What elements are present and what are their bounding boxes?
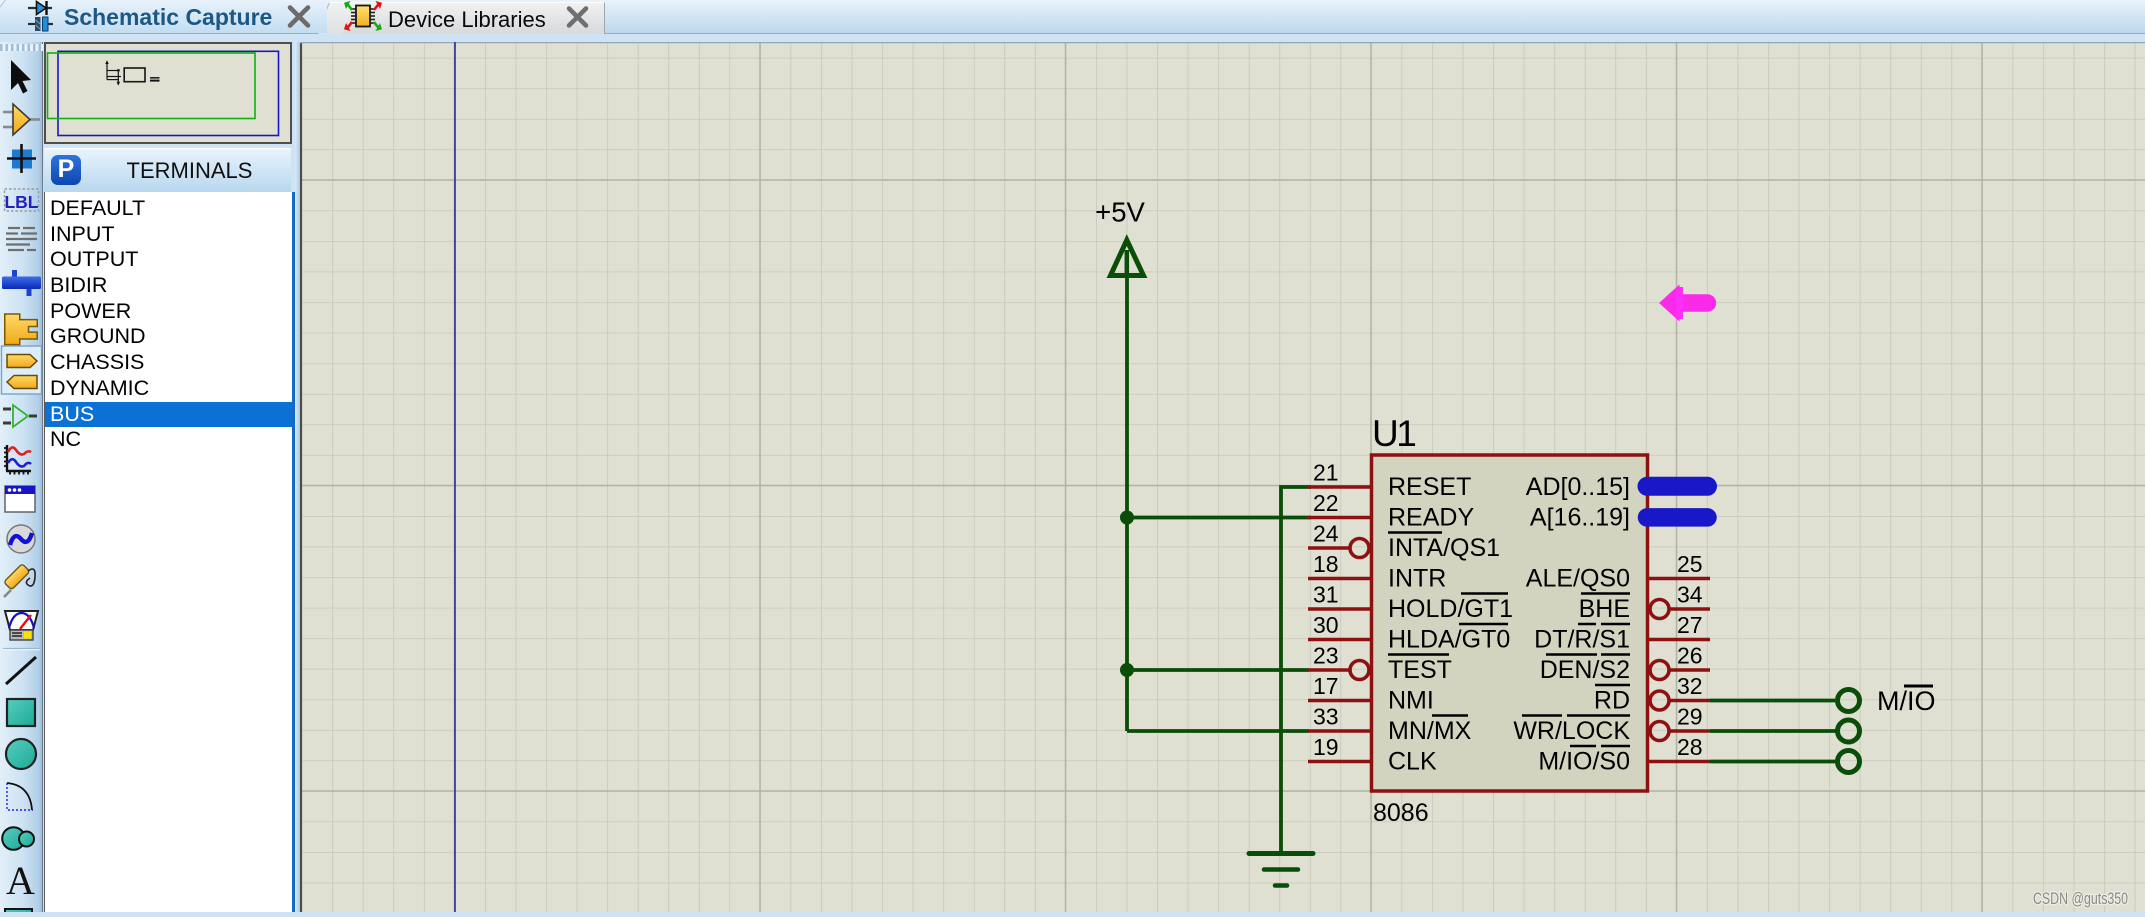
partial icon at bottom (5, 909, 32, 915)
terminals header (44, 148, 291, 193)
svg-text:BHE: BHE (1579, 595, 1630, 623)
right pin numbers (1677, 551, 1703, 760)
terminal ring 3 (1838, 751, 1860, 773)
2D arc tool (7, 783, 33, 810)
pin 29 inversion bubble (1650, 722, 1669, 741)
svg-text:32: 32 (1677, 673, 1703, 699)
pin 32 inversion bubble (1650, 691, 1669, 710)
pin 24 inversion bubble (1350, 539, 1369, 558)
svg-text:M/IO: M/IO (1877, 686, 1936, 716)
power terminal arrow (1111, 240, 1144, 277)
svg-text:18: 18 (1313, 551, 1339, 577)
wire M/IO to terminal (1710, 760, 1836, 764)
svg-text:RD: RD (1594, 687, 1630, 715)
svg-text:RESET: RESET (1388, 473, 1471, 501)
right pin stubs (1648, 579, 1710, 762)
svg-text:HLDA/GT0: HLDA/GT0 (1388, 626, 1510, 654)
svg-text:17: 17 (1313, 673, 1339, 699)
current probe tool (5, 611, 38, 640)
wire WR to terminal (1710, 729, 1836, 733)
svg-text:31: 31 (1313, 582, 1339, 608)
mouse cursor arrow (1659, 285, 1716, 322)
svg-text:ALE/QS0: ALE/QS0 (1526, 565, 1630, 593)
svg-text:A: A (6, 858, 35, 903)
left pin name overbars (1388, 533, 1508, 716)
wire RD to terminal (1710, 699, 1835, 703)
left pin stubs (1308, 487, 1371, 762)
svg-text:WR/LOCK: WR/LOCK (1513, 717, 1630, 745)
M/IO label overbar (1904, 685, 1933, 688)
svg-text:24: 24 (1313, 521, 1339, 547)
wire ground vertical (1281, 487, 1311, 851)
text script tool (6, 228, 37, 250)
svg-text:CSDN @guts350: CSDN @guts350 (2033, 889, 2128, 908)
svg-text:READY: READY (1388, 504, 1474, 532)
pin 26 inversion bubble (1650, 661, 1669, 680)
svg-text:21: 21 (1313, 460, 1339, 486)
wire to pin 33 MN/MX (1127, 729, 1309, 733)
junction at READY wire (1120, 511, 1134, 525)
svg-text:27: 27 (1677, 612, 1703, 638)
right pin name overbars (1522, 594, 1630, 747)
svg-text:23: 23 (1313, 643, 1339, 669)
terminals mode tool (selected) (2, 346, 42, 394)
svg-text:29: 29 (1677, 704, 1703, 730)
svg-text:30: 30 (1313, 612, 1339, 638)
wire to pin 23 TEST (1125, 668, 1309, 672)
preview panel (44, 42, 292, 144)
component mode tool (3, 104, 40, 135)
2D closed path tool (2, 827, 34, 850)
tape recorder mode tool (5, 486, 35, 512)
svg-text:28: 28 (1677, 734, 1703, 760)
svg-text:34: 34 (1677, 582, 1703, 608)
generator mode tool (7, 525, 35, 553)
bus stub AD[0..15] (1647, 477, 1708, 496)
svg-text:LBL: LBL (4, 192, 38, 212)
toolbar separator (3, 648, 40, 650)
svg-text:AD[0..15]: AD[0..15] (1526, 473, 1630, 501)
canvas edge (300, 42, 302, 912)
wire +5V vertical (1125, 276, 1129, 731)
2D circle tool (6, 739, 36, 769)
svg-text:DT/R/S1: DT/R/S1 (1534, 626, 1630, 654)
pin 34 inversion bubble (1650, 600, 1669, 619)
pin 23 inversion bubble (1350, 661, 1369, 680)
svg-text:INTA/QS1: INTA/QS1 (1388, 534, 1500, 562)
object list (44, 192, 295, 912)
svg-text:8086: 8086 (1373, 799, 1429, 827)
op chip body U1 (1372, 455, 1648, 791)
svg-text:A[16..19]: A[16..19] (1530, 504, 1630, 532)
svg-text:CLK: CLK (1388, 748, 1437, 776)
label mode tool LBL (4, 189, 38, 212)
svg-text:HOLD/GT1: HOLD/GT1 (1388, 595, 1513, 623)
wire to pin 22 READY (1125, 516, 1311, 520)
svg-text:U1: U1 (1372, 413, 1415, 454)
device pin mode tool (3, 405, 37, 427)
left toolbar (0, 42, 43, 912)
close button tab 2 (569, 9, 586, 26)
tab icons and close buttons (inserted later) (0, 0, 2145, 1)
svg-text:NMI: NMI (1388, 687, 1434, 715)
svg-text:DEN/S2: DEN/S2 (1540, 656, 1630, 684)
left pin names (1388, 473, 1513, 776)
svg-text:25: 25 (1677, 551, 1703, 577)
close button tab 1 (290, 8, 308, 26)
junction at TEST wire (1120, 663, 1134, 677)
bus mode tool (2, 270, 41, 296)
selection arrow tool (11, 60, 31, 94)
tab bar (0, 0, 2145, 34)
2D box tool (7, 699, 35, 726)
subcircuit mode tool (5, 314, 38, 345)
terminal ring 2 (1838, 720, 1860, 742)
svg-text:MN/MX: MN/MX (1388, 717, 1472, 745)
right pin names (1513, 473, 1630, 776)
junction dot mode tool (7, 144, 36, 173)
sheet origin axis (blue vertical line) (454, 42, 456, 912)
voltage probe tool (4, 564, 35, 597)
svg-text:33: 33 (1313, 704, 1339, 730)
2D line tool (6, 657, 36, 684)
terminal ring M/IO (1838, 690, 1860, 712)
svg-text:26: 26 (1677, 643, 1703, 669)
graph mode tool (4, 445, 31, 475)
bus stub A[16..19] (1647, 508, 1708, 527)
schematic capture tab icon: diode + capacitor (28, 1, 53, 31)
svg-text:22: 22 (1313, 490, 1339, 516)
svg-text:TEST: TEST (1388, 656, 1452, 684)
device libraries tab icon: chip with arrows (344, 1, 382, 31)
svg-text:INTR: INTR (1388, 565, 1446, 593)
svg-text:M/IO/S0: M/IO/S0 (1538, 748, 1630, 776)
ground (1249, 854, 1313, 886)
svg-text:19: 19 (1313, 734, 1339, 760)
svg-text:+5V: +5V (1095, 197, 1145, 228)
left pin numbers (1313, 460, 1339, 761)
